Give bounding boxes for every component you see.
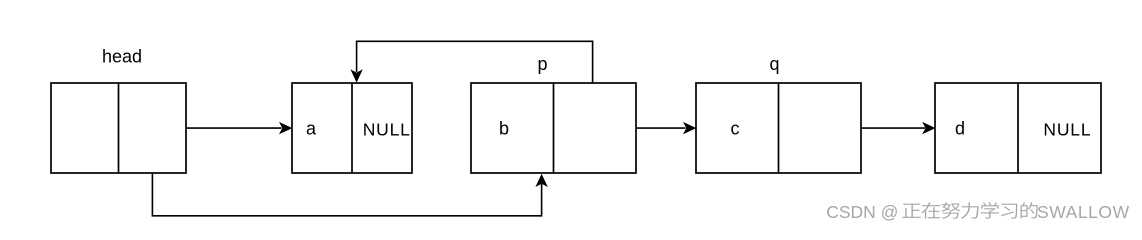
watermark CJK glyph 在 — [922, 202, 941, 218]
svg-text:p: p — [537, 54, 547, 74]
svg-text:b: b — [499, 119, 509, 139]
arrowhead c to d — [922, 122, 935, 134]
arrowhead head to a — [279, 122, 292, 134]
svg-text:c: c — [731, 119, 740, 139]
svg-text:q: q — [769, 54, 779, 74]
wire head to a — [187, 127, 282, 129]
node d: box — [935, 83, 1101, 173]
watermark CJK glyph 学 — [981, 202, 999, 219]
watermark CJK glyph 力 — [961, 202, 979, 218]
svg-text:head: head — [102, 47, 142, 67]
wire c to d — [862, 127, 925, 129]
svg-text:NULL: NULL — [363, 120, 411, 140]
svg-text:d: d — [955, 119, 965, 139]
svg-text:SWALLOW: SWALLOW — [1037, 202, 1130, 222]
svg-text:CSDN @: CSDN @ — [826, 202, 898, 222]
node c: box — [696, 83, 861, 173]
watermark CJK glyph 的 — [1020, 202, 1037, 218]
node head: box — [51, 83, 186, 173]
wire head bottom to b (bottom) — [152, 174, 541, 216]
node b: box — [471, 83, 636, 173]
wire b to c — [637, 127, 686, 129]
node a: box — [292, 83, 412, 173]
svg-text:a: a — [306, 119, 317, 139]
arrowhead into b bottom (up) — [535, 174, 547, 187]
watermark CJK glyph 努 — [941, 202, 960, 219]
watermark CJK glyph 习 — [1001, 204, 1017, 219]
svg-text:NULL: NULL — [1043, 120, 1091, 140]
arrowhead b to c — [683, 122, 696, 134]
watermark CJK glyph 正 — [902, 204, 921, 218]
wire loop b back to a (top) — [357, 41, 593, 82]
arrowhead loop into a (down) — [350, 69, 362, 82]
